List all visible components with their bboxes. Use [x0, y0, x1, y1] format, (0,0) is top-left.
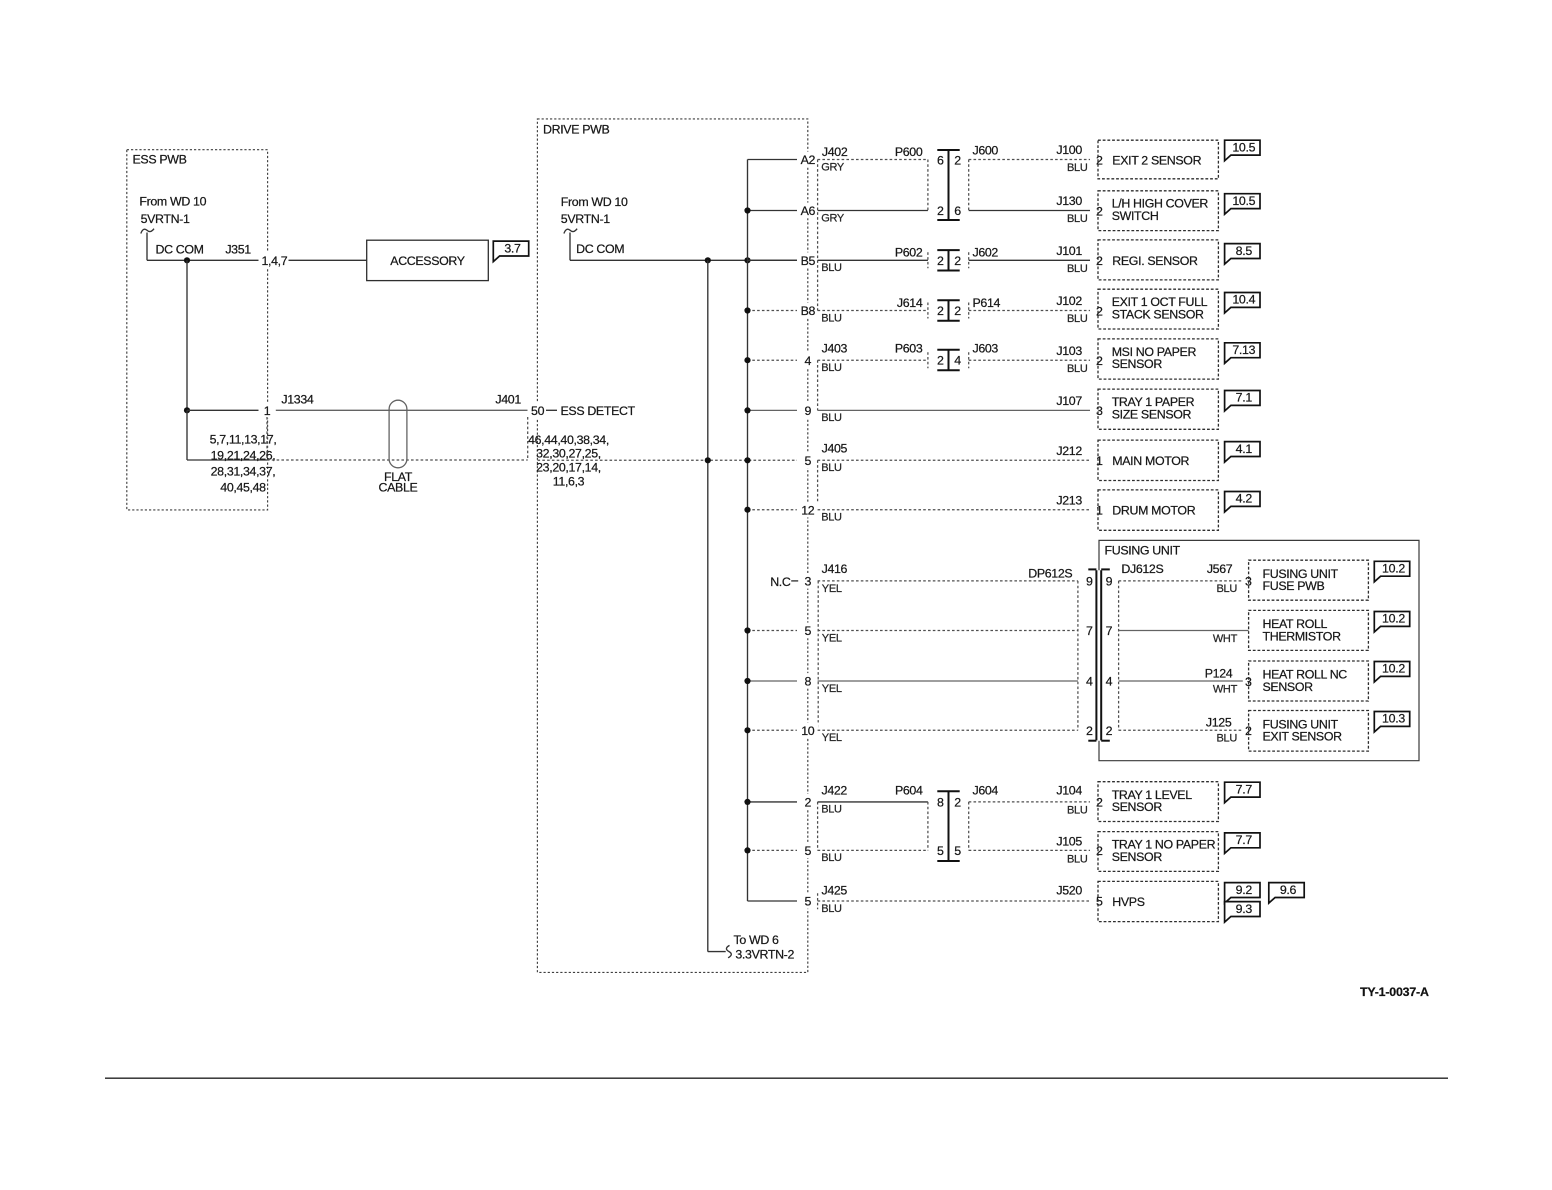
svg-text:J212: J212 — [1056, 444, 1082, 458]
connector J416 bracket — [817, 581, 819, 730]
svg-text:2: 2 — [954, 795, 961, 809]
wire J425 BLU to J520 — [818, 901, 1090, 915]
svg-text:SENSOR: SENSOR — [1112, 850, 1163, 864]
pin 3 of TRAY 1 PAPER SIZE SENSOR — [1094, 403, 1105, 418]
wire DC COM bus feed — [570, 259, 797, 261]
svg-text:J603: J603 — [973, 341, 999, 355]
pin 4 (J603) — [954, 354, 961, 368]
pin 5 of HVPS — [1094, 894, 1105, 909]
callout 10.5 (EXIT 2 SENSOR) — [1225, 140, 1260, 161]
pin 1 of DRUM MOTOR — [1094, 503, 1105, 518]
svg-text:9: 9 — [1106, 575, 1113, 589]
connector J104 label — [1056, 783, 1087, 816]
svg-text:J520: J520 — [1056, 883, 1082, 897]
pin 5 of J425 — [799, 893, 816, 909]
svg-text:12: 12 — [801, 503, 815, 517]
mating connector P603-J603 symbol — [937, 350, 959, 370]
squiggle To WD 6 — [726, 945, 731, 957]
wire row 10 from bus (fusing) — [748, 729, 798, 731]
svg-text:SENSOR: SENSOR — [1112, 357, 1163, 371]
svg-text:ESS DETECT: ESS DETECT — [561, 404, 636, 418]
svg-text:J567: J567 — [1207, 562, 1233, 576]
node junction at pin 1 row — [184, 407, 190, 413]
node B8 on bus 2 — [744, 307, 750, 313]
callout 4.1 (MAIN MOTOR) — [1225, 442, 1260, 463]
svg-text:5VRTN-1: 5VRTN-1 — [141, 212, 190, 226]
wire 5VRTN-1 stub (DRIVE) — [569, 233, 571, 261]
connector J520 label — [1056, 883, 1082, 897]
pin 1,4,7 of J351 — [259, 253, 288, 269]
node return on bus 1 — [705, 457, 711, 463]
REGI. SENSOR box — [1098, 240, 1218, 280]
svg-text:9.6: 9.6 — [1280, 883, 1297, 897]
ESS PWB board outline — [127, 150, 268, 510]
svg-text:10.5: 10.5 — [1232, 194, 1255, 208]
connector J604 bracket — [968, 802, 970, 851]
callout 9.2 (HVPS) — [1225, 883, 1260, 904]
wire J351 to ACCESSORY — [289, 259, 367, 261]
pin 2 of EXIT 1 OCT FULL STACK SENSOR — [1094, 304, 1105, 319]
connector J422 bracket — [817, 802, 819, 851]
wire 9 BLU to J107 — [818, 410, 1090, 424]
svg-text:1,4,7: 1,4,7 — [262, 254, 288, 268]
pin 1 label (J1334) — [260, 403, 275, 419]
svg-text:BLU: BLU — [821, 362, 842, 374]
svg-text:28,31,34,37,: 28,31,34,37, — [211, 465, 276, 479]
FLAT CABLE symbol — [379, 400, 418, 494]
connector J602 mark — [968, 252, 970, 268]
connector J416 label — [822, 562, 848, 576]
svg-text:1: 1 — [1096, 454, 1103, 468]
svg-text:2: 2 — [937, 204, 944, 218]
pin 2 (P603) — [937, 354, 944, 368]
svg-text:40,45,48: 40,45,48 — [220, 480, 266, 494]
pin 9 (DJ612S) — [1106, 575, 1113, 589]
connector P603 mark — [927, 352, 929, 368]
pin A2 of J402 — [799, 152, 816, 168]
svg-text:4: 4 — [805, 354, 812, 368]
svg-text:From WD 10: From WD 10 — [139, 195, 206, 209]
svg-text:REGI. SENSOR: REGI. SENSOR — [1112, 254, 1198, 268]
ACCESSORY box — [367, 240, 489, 280]
wire DJ612S-9 BLU to J567 — [1119, 581, 1243, 595]
HEAT ROLL THERMISTOR box — [1249, 610, 1369, 650]
wire 2 BLU to P604 — [818, 802, 928, 816]
svg-text:BLU: BLU — [1067, 162, 1088, 174]
svg-text:5: 5 — [1096, 895, 1103, 909]
svg-text:2: 2 — [954, 153, 961, 167]
svg-text:10.2: 10.2 — [1382, 562, 1405, 576]
mating connector J614-P614 symbol — [937, 300, 959, 320]
connector P604 label — [895, 783, 923, 797]
svg-text:FUSE PWB: FUSE PWB — [1263, 579, 1325, 593]
mating connector P604-J604 symbol — [937, 791, 959, 861]
HVPS box — [1098, 881, 1218, 921]
svg-text:5: 5 — [937, 844, 944, 858]
MSI NO PAPER SENSOR box — [1098, 339, 1218, 379]
svg-text:BLU: BLU — [821, 852, 842, 864]
svg-text:2: 2 — [1096, 153, 1103, 167]
pin 7 (DP612S) — [1086, 624, 1093, 638]
pin 2 (J614) — [937, 304, 944, 318]
svg-text:J351: J351 — [225, 242, 251, 256]
node 5 tray on bus 2 — [744, 847, 750, 853]
connector J603 mark — [968, 352, 970, 368]
svg-text:CABLE: CABLE — [379, 481, 418, 495]
wire ESS DETECT return to bus — [538, 459, 798, 461]
connector J403 label — [822, 341, 848, 355]
callout 7.7 (TRAY 1 LEVEL) — [1225, 782, 1260, 803]
pin 2 of REGI. SENSOR — [1094, 253, 1105, 268]
svg-text:J213: J213 — [1056, 493, 1082, 507]
svg-text:N.C: N.C — [770, 575, 791, 589]
connector J101 label — [1056, 244, 1087, 275]
svg-text:J104: J104 — [1056, 783, 1082, 797]
pin 7 (DJ612S) — [1106, 624, 1113, 638]
pin 4 (DP612S) — [1086, 675, 1093, 689]
callout 10.2 (THERMISTOR) — [1374, 612, 1409, 633]
svg-text:BLU: BLU — [821, 462, 842, 474]
svg-text:7.13: 7.13 — [1232, 343, 1255, 357]
svg-text:BLU: BLU — [821, 312, 842, 324]
svg-text:BLU: BLU — [1067, 363, 1088, 375]
label N.C — [770, 575, 798, 589]
MAIN MOTOR box — [1098, 440, 1218, 480]
node 5 on bus 2 — [744, 457, 750, 463]
svg-text:To WD 6: To WD 6 — [734, 933, 780, 947]
svg-text:SENSOR: SENSOR — [1263, 680, 1314, 694]
svg-text:J604: J604 — [973, 783, 999, 797]
svg-text:8.5: 8.5 — [1236, 244, 1253, 258]
pin 2 of L/H HIGH COVER SWITCH — [1094, 204, 1105, 219]
svg-text:10.2: 10.2 — [1382, 662, 1405, 676]
svg-text:BLU: BLU — [1067, 804, 1088, 816]
wire J603 to J103 — [969, 359, 1090, 361]
wire to pin 1 of J1334 — [187, 409, 259, 411]
svg-text:9: 9 — [1086, 575, 1093, 589]
wire row 2 from bus (tray) — [748, 801, 798, 803]
svg-text:J614: J614 — [897, 296, 923, 310]
svg-text:19,21,24,26,: 19,21,24,26, — [211, 449, 276, 463]
svg-text:HVPS: HVPS — [1112, 895, 1144, 909]
connector J1334 label — [281, 393, 313, 407]
svg-text:P603: P603 — [895, 341, 923, 355]
svg-text:EXIT 2 SENSOR: EXIT 2 SENSOR — [1112, 153, 1201, 167]
svg-text:2: 2 — [954, 304, 961, 318]
connector P614 label — [973, 296, 1001, 310]
pin 3 of J416 — [799, 573, 816, 589]
svg-text:6: 6 — [954, 204, 961, 218]
svg-text:9: 9 — [805, 404, 812, 418]
pin 2 (DP612S) — [1086, 724, 1093, 738]
svg-text:11,6,3: 11,6,3 — [553, 475, 585, 489]
pin 4 of J403 — [799, 352, 816, 368]
svg-text:TY-1-0037-A: TY-1-0037-A — [1360, 985, 1429, 999]
wire pin1 to pin50 (flat cable) — [276, 409, 528, 411]
pin 2 (J600 top) — [954, 153, 961, 167]
mating connector DP612S-DJ612S symbol — [1088, 569, 1110, 740]
pin 3 of HEAT ROLL NC SENSOR — [1243, 674, 1254, 689]
connector J401 label — [495, 393, 521, 407]
svg-text:FUSING UNIT: FUSING UNIT — [1105, 544, 1181, 558]
pin 2 (DJ612S) — [1106, 724, 1113, 738]
wire DJ612S-4 WHT to P124 — [1119, 681, 1243, 695]
pin 2 (P614) — [954, 304, 961, 318]
callout 10.3 (FUSING EXIT) — [1374, 712, 1409, 733]
connector J402 label — [822, 145, 848, 159]
connector P604 bracket — [927, 802, 929, 851]
connector J405 label — [822, 441, 848, 455]
wire multi-pin return (flat cable, dashed) — [267, 459, 528, 461]
svg-text:2: 2 — [937, 304, 944, 318]
node 5 fusing on bus 2 — [744, 627, 750, 633]
connector P124 label — [1205, 667, 1233, 681]
wire 5 BLU to P604 — [818, 850, 928, 864]
svg-text:J602: J602 — [973, 246, 999, 260]
connector J351 label — [225, 242, 251, 256]
node DC COM on bus 1 — [705, 257, 711, 263]
wire 5VRTN-1 stub (ESS) — [146, 233, 148, 261]
pin 5 of J405 — [799, 452, 816, 468]
FUSING UNIT FUSE PWB box — [1249, 560, 1369, 600]
pin 2 (J604 top) — [954, 795, 961, 809]
connector J403 bracket — [817, 360, 819, 410]
svg-text:A2: A2 — [801, 153, 816, 167]
node 2 tray on bus 2 — [744, 799, 750, 805]
node DC COM on bus 2 — [744, 257, 750, 263]
svg-text:A6: A6 — [801, 204, 816, 218]
svg-text:J105: J105 — [1056, 835, 1082, 849]
connector P600 label — [895, 145, 923, 159]
svg-text:J402: J402 — [822, 145, 848, 159]
connector J213 label — [1056, 493, 1082, 507]
svg-text:50: 50 — [531, 404, 545, 418]
connector J405 bracket — [817, 460, 819, 509]
svg-text:7.7: 7.7 — [1236, 782, 1253, 796]
svg-text:10.2: 10.2 — [1382, 612, 1405, 626]
connector J1334 bracket — [266, 417, 268, 460]
wire HVPS row from bus — [748, 900, 798, 902]
mating connector P600-J600 symbol — [937, 150, 959, 220]
pin 4 (DJ612S) — [1106, 675, 1113, 689]
connector J567 label — [1207, 562, 1233, 576]
wire DJ612S-7 WHT to thermistor — [1119, 631, 1249, 645]
pin 6 (P600 top) — [937, 153, 944, 167]
svg-text:7.7: 7.7 — [1236, 833, 1253, 847]
svg-text:4: 4 — [1106, 675, 1113, 689]
svg-text:2: 2 — [954, 254, 961, 268]
TRAY 1 PAPER SIZE SENSOR box — [1098, 389, 1218, 429]
wire row A6 from bus — [748, 210, 798, 212]
connector J102 label — [1056, 294, 1087, 325]
node 10 fusing on bus 2 — [744, 727, 750, 733]
DRUM MOTOR box — [1098, 490, 1218, 530]
FUSING UNIT EXIT SENSOR box — [1249, 711, 1369, 752]
pin 9 of J403 — [799, 403, 816, 419]
drawing number TY-1-0037-A — [1360, 985, 1429, 999]
wire A2 GRY to P600 — [818, 160, 928, 174]
connector J107 label — [1056, 394, 1082, 408]
wire row A2 from bus — [748, 159, 798, 161]
svg-text:J107: J107 — [1056, 394, 1082, 408]
connector P603 label — [895, 341, 923, 355]
pin 2 of TRAY 1 NO PAPER SENSOR — [1094, 843, 1105, 858]
svg-text:8: 8 — [805, 675, 812, 689]
pin 2 (P600 bottom) — [937, 204, 944, 218]
svg-text:BLU: BLU — [1067, 263, 1088, 275]
callout 10.4 (EXIT 1 OCT) — [1225, 293, 1260, 314]
wire B8 BLU to J614 — [818, 311, 928, 325]
wire row 12 from bus — [748, 509, 798, 511]
wire row 5 from bus (fusing) — [748, 630, 798, 632]
svg-text:7: 7 — [1086, 624, 1093, 638]
svg-text:3: 3 — [805, 575, 812, 589]
svg-text:J405: J405 — [822, 441, 848, 455]
svg-text:5: 5 — [805, 624, 812, 638]
svg-text:J102: J102 — [1056, 294, 1082, 308]
svg-text:5,7,11,13,17,: 5,7,11,13,17, — [210, 433, 277, 447]
wire 5 BLU to J212 — [818, 460, 1090, 474]
connector J422 label — [822, 783, 848, 797]
connector J425 label — [822, 883, 848, 897]
svg-text:1: 1 — [1096, 504, 1103, 518]
svg-text:6: 6 — [937, 153, 944, 167]
svg-text:BLU: BLU — [821, 412, 842, 424]
callout 4.2 (DRUM MOTOR) — [1225, 492, 1260, 513]
svg-text:23,20,17,14,: 23,20,17,14, — [536, 460, 601, 474]
label From WD 10 (DRIVE) — [561, 195, 628, 226]
connector J401 bracket — [527, 417, 529, 460]
pin 6 (J600 bottom) — [954, 204, 961, 218]
squiggle 5VRTN-1 (ESS) — [141, 229, 154, 234]
wire J604 to J105 — [969, 849, 1090, 851]
svg-text:P614: P614 — [973, 296, 1001, 310]
connector J125 label — [1206, 716, 1232, 730]
svg-text:GRY: GRY — [821, 212, 845, 224]
connector P600 bracket — [927, 160, 929, 211]
svg-text:2: 2 — [1245, 724, 1252, 738]
pin 1 of MAIN MOTOR — [1094, 453, 1105, 468]
pin list 5,7,11... (J1334) — [210, 433, 277, 495]
svg-text:B8: B8 — [801, 304, 816, 318]
svg-text:J130: J130 — [1056, 194, 1082, 208]
svg-text:DJ612S: DJ612S — [1121, 562, 1163, 576]
svg-text:B5: B5 — [801, 254, 816, 268]
svg-text:2: 2 — [1096, 796, 1103, 810]
svg-text:5: 5 — [805, 454, 812, 468]
connector J603 label — [973, 341, 999, 355]
wire J602 to J101 — [969, 259, 1090, 261]
svg-text:2: 2 — [1096, 254, 1103, 268]
wire bus 1 (DC COM vertical) — [708, 260, 726, 951]
connector J600 bracket — [968, 160, 970, 211]
wire J416-5 YEL to DP612S — [818, 631, 1078, 645]
svg-text:5: 5 — [805, 844, 812, 858]
svg-text:2: 2 — [937, 354, 944, 368]
node A6 on bus 2 — [744, 207, 750, 213]
pin 2 (P602) — [937, 254, 944, 268]
pin 5 (P604 bottom) — [937, 844, 944, 858]
connector J614 label — [897, 296, 923, 310]
L/H HIGH COVER SWITCH box — [1098, 191, 1218, 231]
svg-text:STACK SENSOR: STACK SENSOR — [1112, 307, 1204, 321]
svg-text:J125: J125 — [1206, 716, 1232, 730]
svg-text:BLU: BLU — [1217, 583, 1238, 595]
connector J105 label — [1056, 835, 1087, 866]
svg-text:10.3: 10.3 — [1382, 712, 1405, 726]
svg-text:ESS PWB: ESS PWB — [133, 153, 187, 167]
DRIVE PWB board outline — [537, 119, 807, 973]
pin list 46,44,... (J401) — [528, 433, 609, 489]
svg-text:5: 5 — [805, 895, 812, 909]
svg-text:J416: J416 — [822, 562, 848, 576]
pin 2 of J422 — [799, 794, 816, 810]
svg-text:5VRTN-1: 5VRTN-1 — [561, 212, 610, 226]
connector J402 bracket — [817, 160, 819, 311]
label From WD 10 (ESS) — [139, 195, 206, 226]
wire J416-10 YEL to DP612S — [818, 730, 1078, 744]
svg-text:P604: P604 — [895, 783, 923, 797]
svg-text:J401: J401 — [495, 393, 521, 407]
callout 9.3 (HVPS) — [1225, 902, 1260, 923]
connector J103 label — [1056, 344, 1087, 375]
svg-text:J103: J103 — [1056, 344, 1082, 358]
svg-text:4.1: 4.1 — [1236, 442, 1253, 456]
svg-text:J422: J422 — [822, 783, 848, 797]
connector P602 mark — [927, 252, 929, 268]
wire row B8 from bus — [748, 310, 798, 312]
pin 2 of MSI NO PAPER SENSOR — [1094, 353, 1105, 368]
svg-text:DRUM MOTOR: DRUM MOTOR — [1112, 504, 1195, 518]
connector DJ612S bracket — [1118, 581, 1120, 730]
svg-text:MAIN MOTOR: MAIN MOTOR — [1112, 454, 1189, 468]
connector P614 mark — [968, 303, 970, 319]
svg-text:BLU: BLU — [821, 262, 842, 274]
label DC COM (DRIVE) — [576, 242, 624, 256]
svg-text:2: 2 — [1096, 844, 1103, 858]
wire ESS return drop — [187, 410, 267, 460]
wire B5 BLU to P602 — [818, 260, 928, 274]
wire 12 BLU to J213 — [818, 510, 1090, 524]
connector J614 mark — [927, 303, 929, 319]
svg-text:BLU: BLU — [1067, 313, 1088, 325]
wire DC COM (ESS) to pin 1,4,7 — [147, 259, 259, 261]
svg-text:BLU: BLU — [1067, 213, 1088, 225]
svg-text:P600: P600 — [895, 145, 923, 159]
svg-text:J101: J101 — [1056, 244, 1082, 258]
wire row 4 from bus — [748, 359, 798, 361]
svg-text:2: 2 — [1096, 304, 1103, 318]
svg-text:7.1: 7.1 — [1236, 391, 1253, 405]
svg-text:4.2: 4.2 — [1236, 492, 1253, 506]
wire J416-8 YEL to DP612S — [818, 681, 1078, 695]
pin 8 of J416 — [799, 673, 816, 689]
svg-text:BLU: BLU — [1217, 733, 1238, 745]
node 9 on bus 2 — [744, 407, 750, 413]
wire J416-3 YEL to DP612S — [818, 581, 1078, 595]
svg-text:3: 3 — [1096, 404, 1103, 418]
label DC COM (ESS) — [156, 242, 204, 256]
svg-text:1: 1 — [264, 404, 271, 418]
svg-text:2: 2 — [805, 796, 812, 810]
pin 2 of FUSING UNIT EXIT SENSOR — [1243, 723, 1254, 738]
svg-text:2: 2 — [937, 254, 944, 268]
svg-text:SIZE SENSOR: SIZE SENSOR — [1112, 407, 1192, 421]
callout 3.7 (ACCESSORY) — [493, 241, 528, 262]
svg-text:2: 2 — [1096, 204, 1103, 218]
svg-text:J1334: J1334 — [281, 393, 313, 407]
connector J600 label — [973, 144, 999, 158]
